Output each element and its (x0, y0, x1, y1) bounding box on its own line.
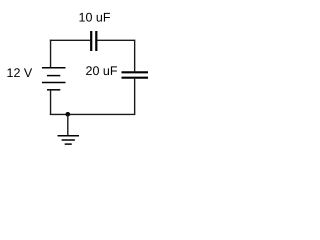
label: 12 V (7, 66, 33, 80)
capacitor C2 20 uF (horizontal plates) (122, 72, 149, 77)
wire: bottom horizontal (50, 113, 135, 115)
wire: right vertical top (corner to C2 top plate) (134, 40, 136, 72)
wire: top-left segment from battery top to C1 left plate (50, 39, 90, 41)
wire: left vertical bottom (battery - to bottom wire) (50, 90, 52, 115)
label: 20 uF (86, 64, 118, 78)
svg-text:12 V: 12 V (7, 66, 33, 80)
wire: top-right segment from C1 right plate to right corner (97, 39, 135, 41)
svg-text:10 uF: 10 uF (79, 10, 111, 24)
ground symbol (58, 136, 80, 144)
wire: right vertical bottom (C2 bottom plate to bottom wire) (134, 79, 136, 115)
junction dot (66, 112, 71, 117)
wire: left vertical top (corner to battery +) (50, 40, 52, 68)
battery V1 (two cells) (42, 68, 66, 90)
capacitor C1 10 uF (vertical plates) (91, 31, 96, 51)
label: 10 uF (79, 10, 111, 24)
wire: ground stem (67, 114, 69, 135)
svg-text:20 uF: 20 uF (86, 64, 118, 78)
